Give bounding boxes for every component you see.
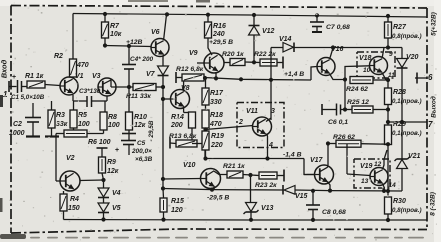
- svg-text:220: 220: [210, 142, 223, 149]
- svg-text:V6: V6: [151, 29, 160, 36]
- svg-text:V14: V14: [279, 36, 292, 43]
- svg-text:7: 7: [428, 120, 433, 129]
- svg-text:C6 0,1: C6 0,1: [328, 119, 348, 126]
- svg-text:V5: V5: [112, 205, 121, 212]
- svg-text:V7: V7: [146, 71, 156, 78]
- svg-text:R23 2к: R23 2к: [255, 182, 277, 189]
- svg-text:V9: V9: [189, 50, 198, 57]
- svg-text:+29,5 В: +29,5 В: [209, 39, 233, 46]
- svg-text:R20 1к: R20 1к: [222, 51, 244, 58]
- svg-text:V13: V13: [261, 205, 274, 212]
- svg-text:R21 1к: R21 1к: [223, 163, 245, 170]
- svg-text:100: 100: [108, 122, 120, 129]
- svg-text:R19: R19: [211, 133, 224, 140]
- svg-text:V19: V19: [360, 163, 373, 170]
- svg-text:R1 1к: R1 1к: [25, 73, 44, 80]
- svg-text:+: +: [12, 74, 16, 81]
- svg-text:V2: V2: [66, 155, 75, 162]
- svg-text:R8: R8: [108, 114, 117, 121]
- svg-text:R25 12: R25 12: [347, 99, 369, 106]
- svg-text:-1,4 В: -1,4 В: [283, 152, 302, 159]
- svg-text:R18: R18: [210, 112, 223, 119]
- svg-text:R28: R28: [393, 89, 406, 96]
- svg-text:100: 100: [78, 121, 90, 128]
- svg-text:C8 0,68: C8 0,68: [322, 209, 346, 216]
- svg-text:C3*130: C3*130: [79, 88, 101, 95]
- svg-text:+1,4 В: +1,4 В: [284, 71, 304, 78]
- svg-text:R27: R27: [393, 24, 407, 31]
- svg-text:V18: V18: [359, 55, 372, 62]
- svg-text:×6,3В: ×6,3В: [135, 156, 153, 163]
- svg-text:R13 6,8к: R13 6,8к: [169, 133, 197, 140]
- svg-text:R16: R16: [213, 23, 226, 30]
- svg-text:- 29,5В: - 29,5В: [148, 120, 155, 141]
- svg-text:13: 13: [361, 178, 369, 185]
- svg-text:470: 470: [209, 121, 222, 128]
- svg-text:Вход: Вход: [0, 59, 9, 78]
- svg-text:R11 33к: R11 33к: [126, 93, 151, 100]
- svg-text:R26 62: R26 62: [333, 134, 355, 141]
- svg-text:0,8(пров.): 0,8(пров.): [392, 33, 422, 40]
- svg-text:33к: 33к: [56, 121, 68, 128]
- svg-text:+12В: +12В: [126, 39, 143, 46]
- svg-text:11: 11: [388, 72, 395, 79]
- svg-text:V1: V1: [75, 73, 84, 80]
- svg-text:R2: R2: [54, 53, 63, 60]
- svg-text:4: 4: [268, 142, 273, 149]
- svg-text:C7 0,68: C7 0,68: [326, 24, 350, 31]
- svg-text:120: 120: [171, 207, 183, 214]
- svg-text:V20: V20: [406, 54, 419, 61]
- svg-text:R10: R10: [134, 114, 147, 121]
- svg-text:R14: R14: [171, 114, 184, 121]
- svg-text:C4* 200: C4* 200: [130, 56, 154, 63]
- svg-text:200,0×: 200,0×: [131, 148, 152, 155]
- svg-text:200: 200: [170, 122, 183, 129]
- svg-text:R30: R30: [393, 198, 406, 205]
- svg-text:5(+32В): 5(+32В): [431, 12, 438, 36]
- svg-text:1: 1: [3, 90, 8, 99]
- svg-text:1000: 1000: [9, 130, 25, 137]
- svg-text:470: 470: [76, 62, 89, 69]
- svg-text:0,1(пров.): 0,1(пров.): [392, 98, 422, 105]
- svg-text:R22 2к: R22 2к: [254, 51, 276, 58]
- svg-text:-29,5 В: -29,5 В: [207, 195, 229, 202]
- svg-text:R4: R4: [70, 196, 79, 203]
- svg-text:R12 6,8к: R12 6,8к: [176, 66, 204, 73]
- svg-text:6: 6: [428, 73, 433, 82]
- svg-text:V4: V4: [112, 190, 121, 197]
- svg-text:12к: 12к: [134, 122, 146, 129]
- svg-text:R24 62: R24 62: [346, 86, 368, 93]
- svg-text:V12: V12: [262, 28, 275, 35]
- svg-text:V3: V3: [92, 73, 101, 80]
- svg-text:Выход: Выход: [430, 96, 438, 118]
- svg-text:R9: R9: [107, 159, 116, 166]
- svg-text:240: 240: [212, 31, 225, 38]
- svg-text:V11: V11: [246, 108, 258, 115]
- svg-text:R17: R17: [210, 90, 224, 97]
- svg-text:12: 12: [374, 161, 382, 168]
- svg-text:V21: V21: [408, 153, 421, 160]
- svg-text:3: 3: [271, 108, 275, 115]
- svg-text:10: 10: [363, 67, 371, 74]
- svg-text:+: +: [115, 147, 119, 154]
- svg-text:0,1(пров.): 0,1(пров.): [392, 130, 422, 137]
- svg-text:R15: R15: [171, 198, 184, 205]
- svg-text:0,8(пров.): 0,8(пров.): [392, 207, 422, 214]
- svg-text:9: 9: [389, 51, 393, 58]
- svg-text:V10: V10: [183, 162, 196, 169]
- svg-text:C2: C2: [13, 121, 22, 128]
- svg-text:R7: R7: [110, 23, 120, 30]
- svg-text:C5: C5: [137, 140, 146, 147]
- svg-text:R6 100: R6 100: [88, 139, 111, 146]
- svg-text:C1 5,0×10В: C1 5,0×10В: [11, 94, 45, 101]
- svg-text:150: 150: [68, 205, 80, 212]
- svg-text:2: 2: [238, 119, 243, 126]
- svg-text:V8: V8: [181, 85, 190, 92]
- svg-text:R3: R3: [56, 112, 65, 119]
- svg-text:14: 14: [389, 182, 397, 189]
- svg-text:330: 330: [210, 99, 222, 106]
- svg-text:V17: V17: [310, 157, 324, 164]
- svg-text:8 (-32В): 8 (-32В): [430, 192, 437, 216]
- svg-text:12к: 12к: [107, 168, 119, 175]
- svg-text:10к: 10к: [110, 31, 122, 38]
